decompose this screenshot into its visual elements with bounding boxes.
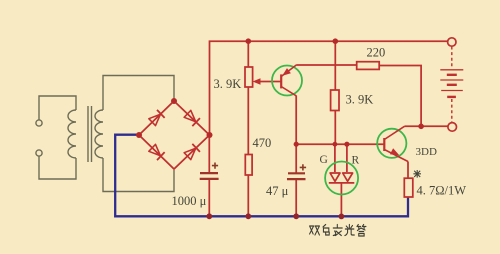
- svg-text:3. 9K: 3. 9K: [214, 77, 242, 91]
- svg-text:G: G: [320, 154, 328, 166]
- svg-text:470: 470: [253, 136, 272, 150]
- svg-text:1000 μ: 1000 μ: [172, 194, 207, 208]
- svg-text:R: R: [352, 155, 360, 167]
- svg-text:4. 7Ω/1W: 4. 7Ω/1W: [417, 184, 467, 198]
- svg-text:220: 220: [367, 46, 386, 60]
- svg-text:3DD: 3DD: [416, 146, 437, 158]
- svg-text:47 μ: 47 μ: [266, 184, 289, 198]
- svg-text:3. 9K: 3. 9K: [346, 93, 374, 107]
